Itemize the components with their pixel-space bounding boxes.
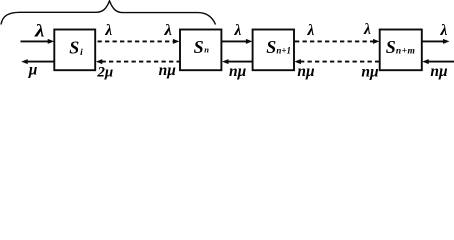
wire Sn to Sn+1 (lambda) <box>222 40 248 42</box>
arrowhead dashed into Sn <box>173 39 180 44</box>
svg-text:Sn+1: Sn+1 <box>266 37 291 57</box>
dashed wire Sn+1 to Sn+m (lambda) <box>295 40 374 42</box>
svg-text:λ: λ <box>440 22 448 39</box>
svg-text:Si: Si <box>69 38 83 59</box>
box Sn <box>180 30 221 71</box>
wire n mu into Sn+m <box>428 61 454 63</box>
box Sn+1 <box>253 30 294 71</box>
arrowhead into S1 <box>48 39 55 44</box>
arrowhead dashed into Sn+m <box>373 39 380 44</box>
box S1 <box>54 30 95 71</box>
svg-text:nμ: nμ <box>159 62 177 79</box>
wire mu out of S1 <box>27 61 55 63</box>
box Sn+m <box>380 30 422 71</box>
arrowhead into Sn+1 <box>246 39 253 44</box>
svg-text:Sn+m: Sn+m <box>386 37 416 57</box>
svg-text:λ: λ <box>104 22 112 39</box>
svg-text:2μ: 2μ <box>96 64 113 80</box>
svg-text:λ: λ <box>307 22 315 39</box>
arrowhead mu left tip <box>21 59 28 64</box>
arrowhead 2mu into S1 <box>96 59 103 64</box>
svg-text:Sn: Sn <box>194 37 210 57</box>
svg-text:λ: λ <box>163 22 172 39</box>
arrowhead dashed n mu into Sn+1 <box>294 59 301 64</box>
arrowhead n mu into Sn <box>222 59 229 64</box>
svg-text:nμ: nμ <box>361 64 379 81</box>
arrowhead n mu into Sn+m right side <box>422 59 429 64</box>
svg-text:λ: λ <box>234 22 242 39</box>
over-brace spanning S1..Sn <box>1 1 216 25</box>
dashed wire S1 to Sn (lambda) <box>98 40 174 42</box>
svg-text:nμ: nμ <box>297 63 315 80</box>
wire lambda into S1 <box>21 40 50 42</box>
svg-text:λ: λ <box>34 20 45 40</box>
birth-death state transition diagram <box>0 0 454 82</box>
wire lambda out of Sn+m <box>422 40 444 42</box>
wire Sn+1 to Sn (n mu) <box>228 61 253 63</box>
svg-text:λ: λ <box>363 21 371 38</box>
svg-text:nμ: nμ <box>229 63 247 80</box>
svg-text:nμ: nμ <box>430 63 448 80</box>
arrowhead lambda out right <box>443 39 450 44</box>
dashed wire Sn+m to Sn+1 (n mu) <box>300 61 380 63</box>
dashed wire Sn to S1 (2mu) <box>102 61 180 63</box>
svg-text:μ: μ <box>28 62 38 79</box>
